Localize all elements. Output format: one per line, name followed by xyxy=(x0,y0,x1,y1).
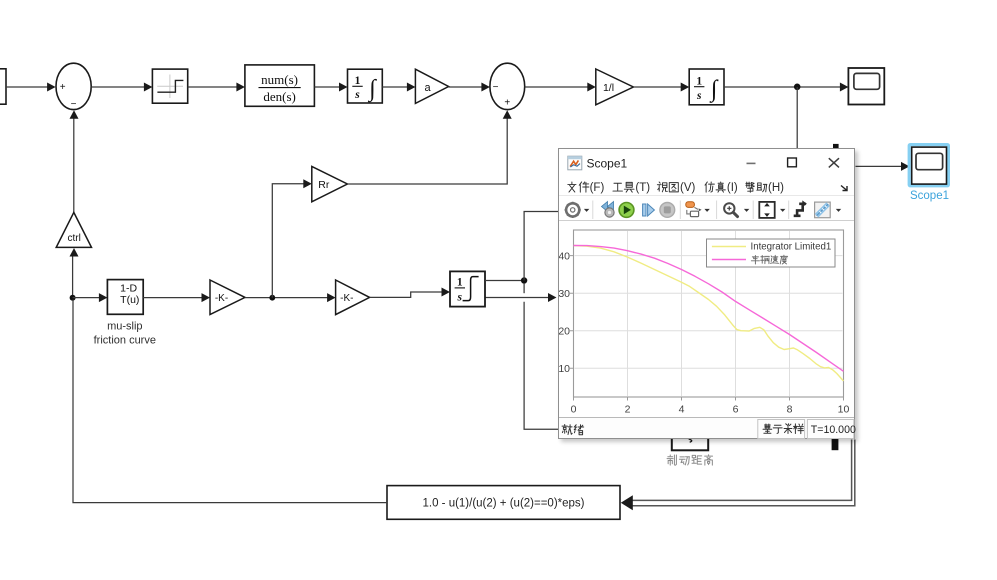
svg-text:40: 40 xyxy=(559,250,570,262)
svg-text:8: 8 xyxy=(787,403,793,415)
svg-text:+: + xyxy=(504,98,510,109)
wire: integrator1 to gain a xyxy=(382,86,407,88)
black block corner above window top xyxy=(833,144,839,151)
svg-text:0: 0 xyxy=(571,403,577,415)
menu item 帮助(H) xyxy=(746,182,784,194)
svg-text:(F): (F) xyxy=(590,182,605,194)
wire: junction up to Rr gain xyxy=(272,184,304,298)
wire: -K- second to integrator3 (with jog) xyxy=(370,292,442,297)
wire: gain 1/l to integrator2 xyxy=(633,86,681,88)
svg-text:30: 30 xyxy=(559,288,570,300)
svg-text:+: + xyxy=(60,82,66,93)
svg-text:1-D: 1-D xyxy=(120,282,137,294)
toolbar caret 1 xyxy=(584,208,589,211)
scope window Scope1 xyxy=(558,148,855,439)
x tick labels xyxy=(571,403,850,415)
label Scope1 (blue) xyxy=(910,190,949,202)
junction node wheel speed xyxy=(521,277,527,283)
svg-text:T(u): T(u) xyxy=(120,294,139,306)
toolbar icon: stop (disabled) xyxy=(660,202,675,217)
toolbar icon: step back (blue arrows + gear) xyxy=(602,201,615,217)
legend box xyxy=(707,239,836,267)
svg-text:2: 2 xyxy=(625,403,631,415)
svg-text:1: 1 xyxy=(696,75,702,87)
axis ticks xyxy=(570,255,844,400)
transfer function block num(s)/den(s) xyxy=(245,65,315,106)
svg-text:4: 4 xyxy=(679,403,685,415)
sum junction Sum1 (+/-) xyxy=(56,63,91,110)
toolbar icon: measurements ruler xyxy=(815,202,831,218)
status text ready xyxy=(562,424,584,434)
svg-text:Integrator Limited1: Integrator Limited1 xyxy=(751,241,832,252)
menu item 文件(F) xyxy=(568,181,605,193)
menu dock arrow xyxy=(841,185,847,190)
window icon (mini scope) xyxy=(568,156,582,170)
sum junction Sum2 (-/+) xyxy=(490,63,525,109)
gain block a xyxy=(415,69,448,103)
svg-text:1/l: 1/l xyxy=(603,82,614,94)
svg-text:6: 6 xyxy=(733,403,739,415)
menu item 仿真(I) xyxy=(705,181,738,193)
svg-text:s: s xyxy=(696,90,702,102)
label braking distance (Chinese) xyxy=(667,455,713,465)
gain block 1/l xyxy=(596,69,634,105)
svg-text:mu-slip: mu-slip xyxy=(107,321,142,333)
wire: integrator3 output to junction xyxy=(485,280,521,282)
toolbar icon: fit to view xyxy=(759,201,774,217)
toolbar caret 3 xyxy=(744,208,749,211)
status cell T=10.000 xyxy=(807,419,856,438)
toolbar caret 2 xyxy=(704,208,709,211)
toolbar icon: zoom magnifier xyxy=(724,203,737,216)
wire: Sum2 to gain 1/l xyxy=(525,86,588,88)
scope block Scope1 (selected, blue halo) xyxy=(909,145,948,186)
svg-text:ctrl: ctrl xyxy=(68,233,81,244)
toolbar separator 2 xyxy=(679,200,681,219)
toolbar icon: trigger (dark glyph) xyxy=(794,200,807,215)
saturation/relay block xyxy=(152,69,187,103)
svg-text:10: 10 xyxy=(838,403,850,415)
wire: window edge to Scope1 block xyxy=(856,165,904,167)
toolbar xyxy=(559,195,854,221)
svg-text:−: − xyxy=(493,82,499,93)
gain block -K- (second) xyxy=(336,280,370,315)
status bar xyxy=(559,417,854,438)
svg-text:-K-: -K- xyxy=(215,293,228,304)
scope block (top right) xyxy=(848,68,884,105)
toolbar caret 5 xyxy=(836,208,841,211)
plot area xyxy=(559,221,856,419)
wire: Rr to Sum2 bottom input xyxy=(347,118,507,184)
wire: Sum1 bottom input from ctrl gain xyxy=(73,119,75,213)
svg-text:(T): (T) xyxy=(635,182,650,194)
svg-text:∫: ∫ xyxy=(709,76,719,103)
curve Integrator Limited1 (yellow) xyxy=(574,245,844,381)
svg-text:s: s xyxy=(354,89,360,101)
wire: integrator2 to Scope with junction xyxy=(724,86,841,88)
y tick labels xyxy=(558,250,570,375)
wire: Sum1 to saturation block xyxy=(91,86,144,88)
wire: junction up and right under scope window xyxy=(524,212,558,281)
menu bar xyxy=(559,149,854,197)
toolbar icon: simulink highlight (orange blocks) xyxy=(686,201,702,216)
vector wire (double) from under window into Fcn input xyxy=(621,440,855,511)
svg-text:Rr: Rr xyxy=(318,179,330,191)
svg-text:∫: ∫ xyxy=(367,76,377,103)
wire: transfer fcn to integrator1 xyxy=(314,86,339,88)
svg-text:num(s): num(s) xyxy=(261,72,298,87)
hidden block sliver (behind window bottom) with s glyph xyxy=(672,430,708,450)
svg-text:Scope1: Scope1 xyxy=(910,190,949,202)
gain block ctrl (points up) xyxy=(56,212,91,247)
minimize button xyxy=(747,162,756,164)
toolbar separator 1 xyxy=(592,200,594,219)
wire: T(u) to gain -K- first xyxy=(143,297,202,299)
svg-text:−: − xyxy=(71,99,77,110)
svg-text:10: 10 xyxy=(559,363,570,375)
wire: junction down and right under scope window (with hop gap) xyxy=(523,283,525,293)
toolbar separator 4 xyxy=(752,200,754,219)
Fcn block 1.0 - u(1)/(u(2) + (u(2)==0)*eps) xyxy=(387,486,620,520)
label mu-slip friction curve xyxy=(94,321,156,347)
wire: wheel-speed branch under integrator3 to hidden block xyxy=(485,297,549,299)
svg-text:s: s xyxy=(457,291,463,303)
junction node after first -K- xyxy=(269,295,275,301)
plot axes box xyxy=(574,230,844,397)
wire: into ctrl gain from junction below xyxy=(72,256,74,298)
svg-text:(H): (H) xyxy=(768,182,784,194)
black block corner below window xyxy=(832,430,839,450)
plot grid xyxy=(575,231,843,396)
wire: -K- first to -K- second with junction xyxy=(245,297,328,299)
status cell sample based xyxy=(758,419,805,438)
title bar xyxy=(559,149,854,174)
1-D lookup table block T(u) xyxy=(107,280,143,315)
close button xyxy=(829,158,839,167)
toolbar separator 3 xyxy=(716,200,718,219)
svg-text:1.0 - u(1)/(u(2) + (u(2)==0)*e: 1.0 - u(1)/(u(2) + (u(2)==0)*eps) xyxy=(422,497,584,509)
svg-text:den(s): den(s) xyxy=(263,89,296,104)
svg-text:1: 1 xyxy=(457,277,463,289)
wire: input block to Sum1 xyxy=(6,86,48,88)
input block (clipped at left edge) xyxy=(0,69,6,104)
toolbar icon: settings gear xyxy=(565,201,581,217)
wire: gain a to Sum2 xyxy=(449,86,482,88)
gain block Rr xyxy=(312,166,348,201)
wire: junction to 1-D T(u) lookup table xyxy=(73,297,100,299)
toolbar caret 4 xyxy=(780,208,785,211)
integrator block 1/s (first) xyxy=(348,69,383,103)
maximize button xyxy=(788,158,797,167)
svg-text:(V): (V) xyxy=(680,182,696,194)
svg-text:1: 1 xyxy=(355,75,361,87)
wire: junction down toward Scope1 (passes behind window) xyxy=(796,87,798,150)
integrator block 1/s (second) xyxy=(689,69,724,105)
svg-text:(I): (I) xyxy=(727,182,738,194)
gain block -K- (first) xyxy=(210,280,245,315)
svg-text:a: a xyxy=(424,82,431,94)
toolbar icon: run (green play) xyxy=(619,202,634,217)
integrator block Integrator Limited1 (1/s saturating) xyxy=(450,271,485,306)
wire: saturation to transfer fcn xyxy=(188,86,237,88)
junction node after integrator2 xyxy=(794,84,801,91)
menu item 视图(V) xyxy=(657,181,695,193)
svg-text:T=10.000: T=10.000 xyxy=(811,423,856,435)
wire: Fcn output left and up to junction (slip feedback) xyxy=(73,300,387,503)
curve vehicle speed (magenta) xyxy=(574,245,844,371)
svg-text:-K-: -K- xyxy=(340,293,353,304)
toolbar separator 5 xyxy=(788,200,790,219)
junction node left (slip feedback) xyxy=(70,295,76,301)
toolbar icon: step forward xyxy=(643,204,655,216)
menu item 工具(T) xyxy=(613,182,650,194)
svg-text:20: 20 xyxy=(559,325,570,337)
svg-text:friction curve: friction curve xyxy=(94,335,156,347)
